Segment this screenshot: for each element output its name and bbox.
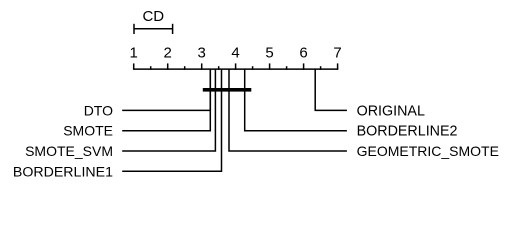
- axis major ticks: [134, 63, 338, 69]
- svg-text:2: 2: [164, 44, 172, 61]
- svg-text:GEOMETRIC_SMOTE: GEOMETRIC_SMOTE: [357, 143, 499, 159]
- label ORIGINAL: [357, 103, 425, 119]
- svg-text:3: 3: [198, 44, 206, 61]
- svg-text:SMOTE_SVM: SMOTE_SVM: [25, 143, 113, 159]
- rank axis numbers 1-7: [130, 44, 342, 61]
- axis minor ticks: [151, 66, 321, 70]
- svg-text:BORDERLINE2: BORDERLINE2: [357, 124, 458, 140]
- label SMOTE_SVM: [25, 143, 113, 159]
- CD interval bracket: [134, 24, 173, 34]
- svg-text:CD: CD: [142, 8, 164, 25]
- svg-text:7: 7: [333, 44, 341, 61]
- label GEOMETRIC_SMOTE: [357, 143, 499, 159]
- method line SMOTE: [122, 69, 210, 131]
- label CD: [142, 8, 164, 25]
- rank axis line: [134, 68, 339, 70]
- svg-text:5: 5: [265, 44, 273, 61]
- svg-text:1: 1: [130, 44, 138, 61]
- clique bar (no significant difference group): [203, 88, 252, 92]
- svg-text:4: 4: [231, 44, 239, 61]
- svg-text:DTO: DTO: [84, 102, 113, 118]
- method line BORDERLINE1: [122, 69, 221, 171]
- label SMOTE: [63, 123, 113, 139]
- method line BORDERLINE2: [245, 69, 347, 131]
- method line DTO: [122, 69, 210, 110]
- method line GEOMETRIC_SMOTE: [229, 69, 347, 151]
- label BORDERLINE1: [13, 164, 113, 180]
- label BORDERLINE2: [357, 124, 458, 140]
- svg-text:BORDERLINE1: BORDERLINE1: [13, 164, 113, 180]
- svg-text:ORIGINAL: ORIGINAL: [357, 103, 425, 119]
- method line SMOTE_SVM: [122, 69, 215, 151]
- svg-text:6: 6: [299, 44, 307, 61]
- svg-text:SMOTE: SMOTE: [63, 123, 113, 139]
- label DTO: [84, 102, 113, 118]
- method line ORIGINAL: [315, 69, 347, 110]
